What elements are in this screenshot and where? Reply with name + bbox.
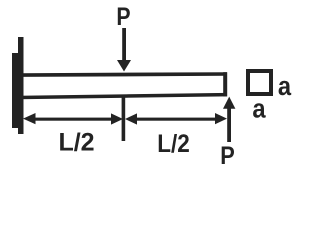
cross-section square a x a — [248, 71, 271, 94]
svg-text:a: a — [278, 72, 292, 102]
midspan divider line — [122, 97, 126, 141]
force P arrowhead (top, downward) — [117, 60, 131, 72]
force P arrowhead (upward) — [223, 97, 235, 109]
dimension line left segment — [30, 118, 118, 121]
svg-text:P: P — [220, 142, 235, 166]
svg-text:a: a — [252, 94, 266, 124]
beam bottom edge — [19, 93, 227, 99]
beam right end edge — [223, 72, 227, 96]
fixed wall support — [12, 37, 24, 134]
dimension line right segment — [131, 118, 219, 121]
svg-text:L/2: L/2 — [58, 129, 94, 157]
svg-text:P: P — [116, 2, 130, 30]
force P arrow shaft (top, downward) — [122, 28, 126, 62]
force P arrow shaft (bottom right, upward) — [227, 105, 231, 143]
beam top edge — [19, 72, 227, 77]
dimension arrow right of left segment (tip at divider) — [111, 113, 123, 124]
svg-text:L/2: L/2 — [157, 130, 189, 158]
dimension arrow right (tip at load shaft) — [215, 113, 227, 124]
dimension arrow left of right segment (tip at divider) — [125, 113, 137, 124]
dimension arrow left (tip at wall) — [23, 113, 36, 124]
